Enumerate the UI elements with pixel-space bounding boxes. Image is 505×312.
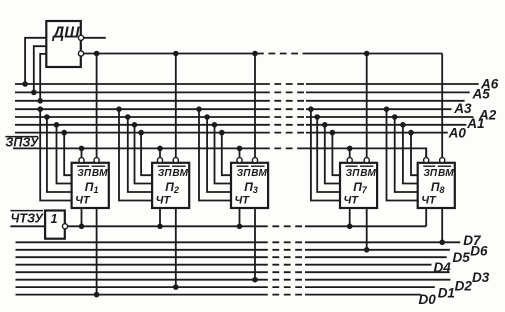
wire A3 to address input of П8: [384, 106, 418, 200]
svg-text:A1: A1: [466, 116, 484, 131]
svg-text:ЗПЗУ: ЗПЗУ: [5, 136, 40, 150]
wire A1 to address input of П7: [322, 122, 340, 184]
decoder output bubble pin 1 (unused bank select): [78, 35, 83, 40]
wire data line D6: [16, 249, 450, 251]
RAM chip П8: [418, 163, 455, 208]
svg-text:ЧТ: ЧТ: [421, 195, 437, 207]
input bubble ЗП of П7: [347, 158, 352, 163]
wire A0 to address input of П8: [408, 130, 418, 175]
inverter D1 "1" for CHTZU: [45, 211, 65, 239]
wire A2 to address input of П3: [204, 114, 231, 192]
inverter output bubble: [62, 224, 67, 229]
svg-text:ЧТ: ЧТ: [156, 195, 172, 207]
wire address line A4: [15, 100, 465, 102]
wire ZPZU to ЗП pin of П7: [347, 146, 353, 158]
wire A1 to address input of П1: [54, 122, 72, 184]
wire A1 to address input of П3: [212, 122, 231, 184]
label ZPZU with overline: [5, 136, 40, 150]
wire address line A3: [15, 108, 452, 110]
wire stub from decoder pin 1: [84, 37, 106, 39]
wire data line D0: [16, 294, 421, 296]
svg-text:ДШ: ДШ: [51, 25, 80, 42]
input bubble ЗП of П8: [424, 158, 429, 163]
svg-text:ЧТ: ЧТ: [75, 195, 91, 207]
wire data pin of П8 to D7: [439, 208, 445, 245]
svg-text:A5: A5: [472, 87, 491, 102]
wire CHT read-enable net: [67, 225, 426, 227]
wire A5 to decoder input: [31, 46, 46, 95]
wire data pin of П2 to D1: [173, 208, 179, 290]
wire A2 to address input of П2: [125, 114, 152, 192]
input bubble ЗП of П1: [79, 158, 84, 163]
svg-text:1: 1: [51, 212, 58, 226]
wire A4 to decoder input: [37, 54, 46, 104]
decoder output bubble pin 2 (bank select): [78, 51, 83, 56]
wire A0 to address input of П1: [61, 130, 71, 175]
wire A3 to address input of П1: [37, 106, 71, 200]
wire A1 to address input of П2: [132, 122, 152, 184]
wire data line D5: [16, 256, 447, 258]
svg-text:ЗП: ЗП: [77, 168, 91, 179]
wire ЧТ pin of П3 to read net: [237, 208, 243, 229]
RAM chip П7: [340, 163, 377, 208]
wire ZPZU to ЗП pin of П8: [425, 148, 427, 157]
svg-text:A3: A3: [453, 101, 472, 116]
svg-text:D5: D5: [453, 250, 471, 265]
wire ЧТ pin of П7 to read net: [347, 208, 353, 229]
input bubble ВМ of П2: [173, 158, 178, 163]
svg-text:ЗП: ЗП: [346, 168, 360, 179]
wire select to ВМ pin of П8: [441, 54, 443, 158]
wire address line A0: [15, 132, 448, 134]
wire data line D3: [16, 271, 450, 273]
svg-text:ЗП: ЗП: [237, 168, 251, 179]
svg-text:D1: D1: [438, 286, 455, 301]
wire select to ВМ pin of П2: [173, 51, 179, 158]
RAM chip П1: [72, 163, 109, 208]
svg-text:ВМ: ВМ: [360, 168, 376, 179]
RAM chip П3: [231, 163, 268, 208]
input bubble ВМ of П7: [364, 158, 369, 163]
svg-text:D6: D6: [470, 243, 488, 258]
label CHTZU with overline: [11, 211, 45, 226]
wire select to ВМ pin of П1: [94, 51, 100, 158]
wire A2 to address input of П7: [314, 114, 340, 192]
input bubble ЗП of П3: [237, 158, 242, 163]
wire ЧТ pin of П2 to read net: [157, 208, 163, 229]
wire data line D4: [16, 264, 432, 266]
input bubble ВМ of П1: [94, 158, 99, 163]
input bubble ВМ of П8: [440, 158, 445, 163]
svg-text:D4: D4: [434, 260, 452, 275]
wire A3 to address input of П2: [116, 106, 152, 200]
svg-text:ЧТ: ЧТ: [344, 195, 360, 207]
wire data line D1: [16, 286, 435, 288]
svg-text:ВМ: ВМ: [251, 168, 267, 179]
wire A2 to address input of П8: [392, 114, 418, 192]
RAM chip П2: [152, 163, 189, 208]
wire ЧТ pin of П1 to read net: [79, 208, 85, 229]
wire address line A1: [15, 124, 466, 126]
svg-text:ЗП: ЗП: [158, 168, 172, 179]
wire ZPZU write-enable net: [13, 147, 426, 149]
svg-text:ЧТЗУ: ЧТЗУ: [11, 212, 45, 226]
svg-text:D0: D0: [419, 292, 437, 307]
wire A3 to address input of П3: [196, 106, 231, 200]
wire A0 to address input of П3: [219, 130, 231, 175]
input bubble ВМ of П3: [252, 158, 257, 163]
svg-text:ЗП: ЗП: [424, 168, 438, 179]
wire ZPZU to ЗП pin of П3: [237, 146, 243, 158]
wire A0 to address input of П2: [138, 130, 152, 175]
svg-text:ВМ: ВМ: [92, 168, 108, 179]
wire A3 to address input of П7: [308, 106, 340, 200]
svg-text:D2: D2: [455, 278, 473, 293]
svg-text:ЧТ: ЧТ: [235, 195, 251, 207]
wire select to ВМ pin of П3: [252, 51, 258, 158]
corner ZPZU down to П8: [424, 148, 427, 157]
svg-text:ВМ: ВМ: [172, 168, 188, 179]
wire data pin of П3 to D2: [252, 208, 258, 283]
wire ЧТ pin of П8 to read net: [425, 208, 427, 226]
decoder U1 ДШ: [46, 21, 81, 67]
wire A0 to address input of П7: [330, 130, 340, 175]
wire data pin of П7 to D6: [364, 208, 370, 253]
wire A1 to address input of П8: [400, 122, 418, 184]
svg-text:D3: D3: [472, 270, 490, 285]
wire CHTZU input: [10, 225, 45, 227]
wire A6 to decoder input: [22, 38, 46, 87]
wire A2 to address input of П1: [44, 114, 71, 192]
wire data line D7: [16, 241, 461, 243]
svg-text:ВМ: ВМ: [438, 168, 454, 179]
wire data pin of П1 to D0: [94, 208, 100, 297]
wire address line A2: [15, 116, 474, 118]
svg-text:A0: A0: [448, 125, 467, 140]
wire chip-select net from decoder: [83, 53, 442, 55]
input bubble ЗП of П2: [157, 158, 162, 163]
wire address line A6: [15, 83, 479, 85]
wire data line D2: [16, 279, 451, 281]
wire select to ВМ pin of П7: [364, 51, 370, 158]
wire address line A5: [15, 91, 470, 93]
wire ZPZU to ЗП pin of П2: [157, 146, 163, 158]
wire ZPZU to ЗП pin of П1: [79, 146, 85, 158]
